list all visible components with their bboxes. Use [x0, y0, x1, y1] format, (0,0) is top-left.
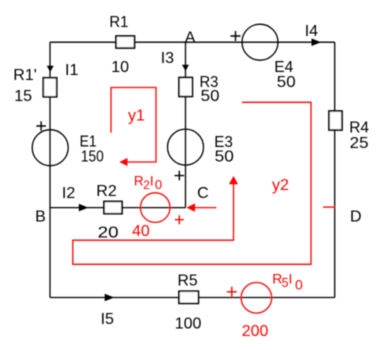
svg-text:R1: R1 — [109, 14, 128, 31]
svg-text:25: 25 — [350, 135, 369, 152]
svg-text:R2: R2 — [96, 183, 117, 200]
plus of R5'I0 (red) — [227, 287, 237, 297]
plus of E4 — [231, 31, 241, 41]
source R5'I0 (red) — [241, 283, 272, 314]
loop y1 arrowhead — [119, 158, 127, 166]
svg-text:R5: R5 — [178, 273, 198, 290]
svg-text:10: 10 — [111, 59, 129, 76]
resistor R1 — [116, 36, 135, 48]
svg-text:150: 150 — [81, 148, 104, 165]
current arrow I1 — [47, 66, 54, 72]
source E1 — [32, 130, 68, 166]
resistor R4 — [329, 111, 342, 130]
current arrow I3 — [182, 65, 189, 71]
plus of R2'I0 (red) — [175, 215, 184, 224]
wire right vertical — [334, 42, 336, 297]
current arrow I2 — [79, 204, 89, 212]
resistor R3 — [179, 78, 192, 97]
source E4 — [242, 24, 278, 60]
loop y1 (red) — [111, 88, 156, 163]
resistor R1' — [43, 78, 56, 97]
source R2'I0 (red) — [140, 193, 170, 223]
loop y2 (red) — [73, 102, 311, 264]
plus of E3 — [175, 171, 185, 181]
resistor R5 — [179, 291, 198, 303]
wire left vertical — [49, 42, 51, 297]
current arrow I5 — [105, 294, 115, 302]
svg-text:50: 50 — [215, 148, 234, 165]
wire bottom — [50, 297, 335, 299]
svg-text:D: D — [350, 209, 362, 226]
svg-text:y1: y1 — [128, 107, 145, 124]
svg-text:50: 50 — [277, 74, 296, 91]
plus of E1 — [36, 121, 46, 131]
svg-text:100: 100 — [175, 315, 202, 332]
svg-text:200: 200 — [242, 323, 269, 340]
svg-text:R1': R1' — [13, 67, 37, 84]
svg-text:y2: y2 — [272, 177, 289, 194]
svg-text:I2: I2 — [62, 185, 75, 202]
svg-text:I4: I4 — [305, 23, 318, 40]
svg-text:B: B — [35, 209, 46, 226]
svg-text:50: 50 — [201, 88, 220, 105]
red arrow into node C — [194, 207, 216, 209]
wire B-C horizontal — [50, 207, 186, 209]
current arrow I4 — [312, 38, 322, 46]
wire top A-row — [50, 41, 335, 43]
loop y2 arrowhead — [229, 176, 238, 184]
svg-text:C: C — [197, 185, 209, 202]
svg-text:I1: I1 — [65, 62, 78, 79]
source E3 — [168, 129, 204, 165]
svg-text:I3: I3 — [161, 50, 174, 67]
svg-text:15: 15 — [14, 88, 32, 105]
resistor R2 — [104, 201, 122, 213]
wire middle vertical A-C — [185, 42, 187, 207]
red tick at node D — [323, 206, 335, 208]
svg-text:I5: I5 — [101, 311, 114, 328]
svg-text:A: A — [185, 29, 196, 46]
svg-text:20: 20 — [98, 225, 119, 242]
svg-text:40: 40 — [132, 223, 150, 240]
